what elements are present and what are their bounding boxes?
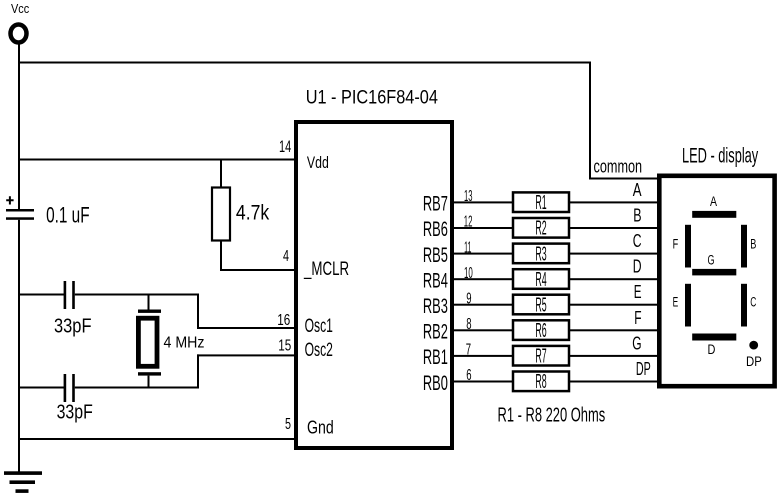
svg-text:D: D (633, 256, 642, 277)
svg-text:15: 15 (278, 338, 291, 355)
segment D bar (692, 334, 736, 341)
crystal Y1 body (138, 318, 157, 366)
LED display DS1 body (659, 176, 774, 386)
resistor R3 body (513, 244, 569, 264)
svg-text:common: common (594, 157, 643, 177)
svg-text:DP: DP (746, 354, 762, 370)
wire Osc1 horizontal pin 16 (197, 327, 296, 329)
resistor R1 body (513, 192, 569, 212)
svg-text:R7: R7 (535, 346, 546, 368)
svg-text:RB6: RB6 (423, 218, 448, 241)
svg-text:RB1: RB1 (423, 346, 448, 369)
wire R2 to segment B (570, 227, 659, 229)
svg-text:4 MHz: 4 MHz (164, 335, 205, 352)
svg-text:A: A (633, 179, 642, 200)
svg-text:B: B (633, 205, 641, 226)
svg-text:0.1 uF: 0.1 uF (46, 202, 90, 227)
wire crystal bottom stem (148, 376, 150, 389)
wire RB7 to R1 (452, 201, 512, 203)
wire RB1 to R7 (452, 355, 512, 357)
svg-text:D: D (708, 342, 716, 358)
wire R5 to segment E (570, 304, 659, 306)
svg-text:RB5: RB5 (423, 244, 448, 267)
capacitor C1 bottom plate (6, 217, 34, 220)
svg-text:LED - display: LED - display (682, 144, 759, 167)
svg-text:B: B (750, 237, 756, 253)
svg-text:11: 11 (464, 239, 471, 256)
svg-text:G: G (708, 253, 715, 269)
svg-text:C: C (633, 230, 642, 251)
svg-text:R6: R6 (535, 320, 546, 342)
resistor R7 body (513, 346, 569, 366)
wire R3 to segment C (570, 253, 659, 255)
decimal point dot (749, 341, 758, 350)
crystal Y1 bottom electrode (138, 372, 161, 375)
svg-text:RB2: RB2 (423, 321, 448, 344)
svg-text:G: G (632, 332, 641, 353)
svg-text:Vdd: Vdd (307, 154, 329, 172)
svg-text:10: 10 (464, 265, 473, 282)
svg-text:E: E (634, 281, 642, 302)
resistor R2 body (513, 218, 569, 238)
wire Gnd horizontal pin 5 (18, 438, 296, 440)
resistor R8 body (513, 372, 569, 392)
svg-text:8: 8 (466, 316, 471, 333)
svg-text:R1: R1 (535, 192, 546, 214)
svg-text:C: C (750, 295, 756, 311)
Vcc terminal (11, 25, 27, 43)
wire R8 to segment DP (570, 381, 659, 383)
svg-text:A: A (710, 194, 717, 210)
capacitor C1 top plate (6, 209, 34, 212)
ground bar 2 (10, 480, 36, 484)
svg-text:12: 12 (464, 214, 473, 231)
resistor R6 body (513, 320, 569, 340)
svg-text:F: F (673, 237, 679, 253)
ground bar 3 (16, 489, 29, 493)
capacitor C3 right plate (72, 374, 75, 402)
svg-text:14: 14 (279, 137, 291, 156)
svg-text:4: 4 (283, 248, 289, 265)
ground bar 1 (4, 471, 42, 475)
wire Vdd horizontal pin 14 (18, 159, 296, 161)
segment B bar (741, 225, 747, 268)
svg-text:DP: DP (636, 358, 651, 379)
wire left rail below C1 to ground (18, 220, 20, 472)
segment F bar (685, 225, 691, 268)
segment G bar (692, 269, 736, 276)
wire RB3 to R5 (452, 304, 512, 306)
wire Vcc stem down to C1 (18, 43, 20, 210)
wire C3 right segment to Osc2 rise (75, 387, 199, 389)
capacitor C2 right plate (72, 281, 75, 309)
segment E bar (685, 284, 691, 327)
svg-text:R2: R2 (535, 218, 546, 240)
segment A bar (692, 211, 736, 218)
wire R6 to segment F (570, 329, 659, 331)
wire R9 bottom stem (220, 241, 222, 271)
capacitor C1 polarity plus (6, 196, 13, 204)
wire RB4 to R4 (452, 278, 512, 280)
resistor R9 4.7k body (212, 188, 230, 241)
svg-text:9: 9 (466, 290, 471, 307)
svg-text:Osc1: Osc1 (305, 316, 333, 337)
svg-text:U1 - PIC16F84-04: U1 - PIC16F84-04 (306, 88, 439, 109)
svg-text:Osc2: Osc2 (305, 340, 333, 361)
wire Osc1 vertical drop (197, 294, 199, 330)
wire RB5 to R3 (452, 253, 512, 255)
svg-text:R4: R4 (535, 269, 546, 291)
wire RB6 to R2 (452, 227, 512, 229)
wire top horizontal Vcc to common (18, 62, 591, 64)
svg-text:RB3: RB3 (423, 295, 448, 318)
wire C2 left segment (18, 294, 64, 296)
svg-text:R8: R8 (535, 371, 546, 393)
crystal Y1 top electrode (138, 310, 161, 313)
svg-text:33pF: 33pF (54, 315, 92, 338)
svg-text:Gnd: Gnd (307, 418, 334, 438)
svg-text:R3: R3 (535, 243, 546, 265)
svg-text:RB4: RB4 (423, 269, 448, 292)
wire R4 to segment D (570, 278, 659, 280)
svg-text:4.7k: 4.7k (236, 201, 270, 224)
svg-text:Vcc: Vcc (11, 1, 30, 16)
wire MCLR horizontal pin 4 (220, 269, 296, 271)
wire common horizontal into LED (589, 178, 660, 180)
wire Osc2 horizontal pin 15 (197, 354, 296, 356)
wire RB2 to R6 (452, 329, 512, 331)
wire C3 left segment (18, 387, 64, 389)
svg-text:R5: R5 (535, 294, 546, 316)
wire Osc2 vertical rise (197, 354, 199, 388)
wire R7 to segment G (570, 355, 659, 357)
svg-text:_MCLR: _MCLR (303, 259, 349, 280)
svg-text:RB0: RB0 (423, 372, 448, 395)
segment C bar (741, 284, 747, 327)
capacitor C2 left plate (64, 281, 67, 309)
IC U1 body (296, 122, 452, 448)
capacitor C3 left plate (64, 374, 67, 402)
svg-text:E: E (673, 295, 679, 311)
svg-text:16: 16 (277, 312, 290, 329)
wire common vertical drop (589, 62, 591, 180)
svg-text:F: F (634, 307, 641, 328)
svg-text:6: 6 (466, 367, 471, 384)
wire crystal top stem (148, 294, 150, 311)
svg-text:5: 5 (285, 416, 291, 433)
wire RB0 to R8 (452, 381, 512, 383)
wire R9 top stem (220, 159, 222, 188)
resistor R5 body (513, 295, 569, 315)
resistor R4 body (513, 269, 569, 289)
wire R1 to segment A (570, 201, 659, 203)
svg-text:7: 7 (466, 342, 471, 359)
wire C2 right segment to Osc1 drop (75, 294, 199, 296)
svg-text:RB7: RB7 (423, 193, 448, 216)
svg-text:13: 13 (464, 188, 473, 205)
svg-text:33pF: 33pF (57, 401, 93, 424)
svg-text:R1 - R8 220 Ohms: R1 - R8 220 Ohms (498, 405, 606, 427)
